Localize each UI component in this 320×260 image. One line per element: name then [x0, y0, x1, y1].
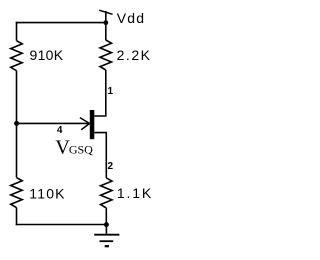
- wire: left rail lower segment: [16, 208, 18, 226]
- svg-text:2: 2: [108, 161, 114, 172]
- svg-text:4: 4: [57, 125, 63, 136]
- label Vdd: [117, 10, 144, 26]
- wire: source wire net 2: [94, 133, 106, 178]
- wire: right rail Vdd node to 2.2K: [105, 23, 107, 41]
- pin label 2: [108, 161, 114, 172]
- wire: left rail middle segment: [16, 71, 18, 178]
- Vdd terminal tick: [99, 10, 112, 14]
- svg-text:VGSQ: VGSQ: [55, 136, 93, 158]
- svg-text:110K: 110K: [29, 186, 65, 202]
- label 1.1K value: [117, 185, 152, 201]
- label 2.2K value: [117, 47, 151, 63]
- resistor 910K: [11, 41, 23, 71]
- ground symbol: [94, 235, 119, 247]
- transistor body bar: [90, 110, 95, 139]
- resistor 110K: [11, 178, 23, 208]
- label VGSQ: [55, 136, 93, 158]
- pin label 4: [57, 125, 63, 136]
- wire: Vdd terminal stub: [105, 11, 107, 23]
- node: gate junction dot: [14, 121, 19, 126]
- label 910K value: [30, 47, 64, 63]
- pin label 1: [108, 86, 114, 97]
- label 110K value: [29, 186, 65, 202]
- resistor 2.2K: [100, 40, 112, 70]
- wire: ground stub: [105, 225, 107, 234]
- wire: drain wire net 1: [94, 70, 106, 116]
- wire: gate wire net 4: [17, 122, 90, 124]
- wire: 1.1K to ground node: [105, 208, 107, 225]
- svg-text:1: 1: [108, 86, 114, 97]
- transistor gate arrowhead: [80, 118, 90, 130]
- wire: top horizontal rail: [16, 22, 106, 24]
- node: Vdd junction dot: [103, 20, 108, 25]
- svg-text:2.2K: 2.2K: [117, 47, 151, 63]
- wire: left rail upper segment: [16, 22, 18, 41]
- svg-text:Vdd: Vdd: [117, 10, 144, 26]
- node: ground junction dot: [104, 222, 109, 227]
- svg-text:1.1K: 1.1K: [117, 185, 152, 201]
- wire: bottom horizontal rail: [16, 224, 107, 226]
- resistor 1.1K: [101, 178, 113, 208]
- svg-text:910K: 910K: [30, 47, 64, 63]
